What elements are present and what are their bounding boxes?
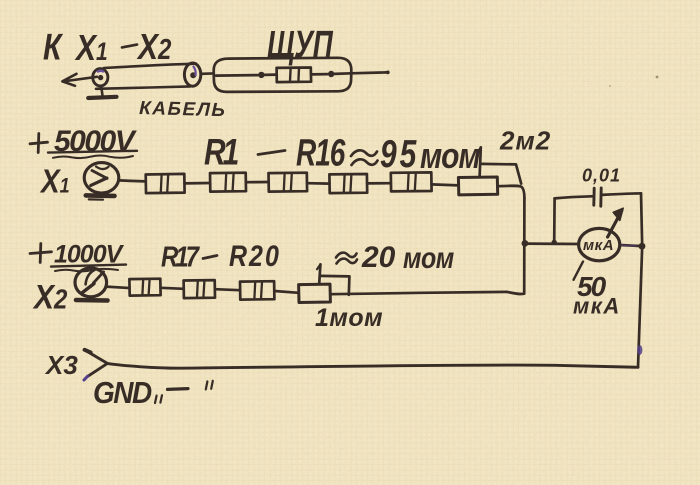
svg-text:2м2: 2м2 <box>499 126 551 156</box>
svg-text:GND: GND <box>93 376 152 411</box>
svg-text:R16: R16 <box>296 133 346 175</box>
svg-text:R1: R1 <box>204 131 239 173</box>
svg-text:мкА: мкА <box>583 237 614 254</box>
svg-text:5000V: 5000V <box>54 125 138 158</box>
svg-text:20: 20 <box>361 241 396 274</box>
svg-text:0,01: 0,01 <box>582 166 621 186</box>
svg-text:мом: мом <box>403 241 454 275</box>
svg-text:X2: X2 <box>136 27 171 67</box>
svg-text:95: 95 <box>380 133 419 176</box>
svg-text:ЩУП: ЩУП <box>267 23 334 67</box>
svg-text:X3: X3 <box>44 350 78 380</box>
svg-text:1000V: 1000V <box>54 241 125 269</box>
svg-text:мом: мом <box>420 136 480 176</box>
svg-text:К: К <box>43 28 64 68</box>
svg-text:1мом: 1мом <box>315 304 383 332</box>
svg-text:R17: R17 <box>161 240 200 273</box>
svg-text:КАБЕЛЬ: КАБЕЛЬ <box>139 98 227 121</box>
svg-text:R20: R20 <box>229 239 281 273</box>
svg-text:мкА: мкА <box>573 294 621 319</box>
